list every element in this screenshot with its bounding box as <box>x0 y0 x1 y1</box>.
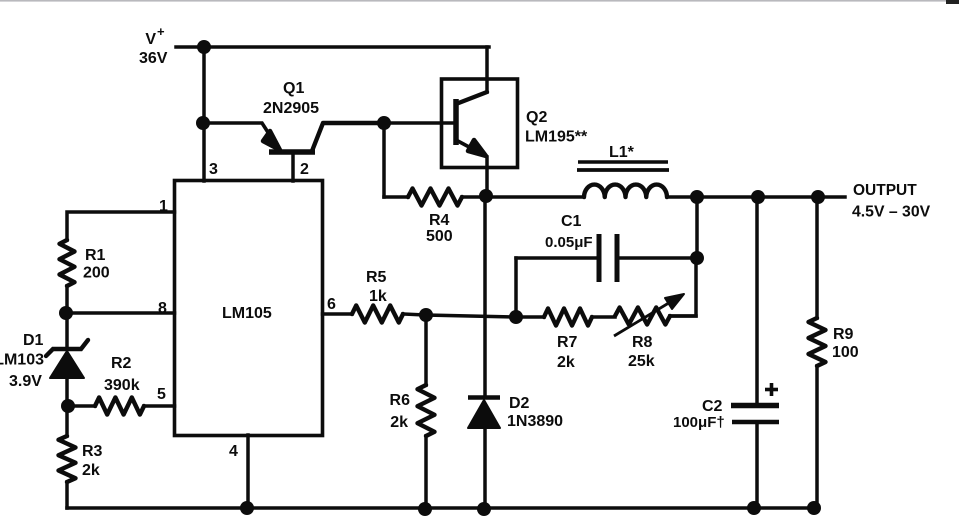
wire output node down to C1 <box>695 197 699 258</box>
svg-text:2k: 2k <box>82 462 100 479</box>
svg-text:D1: D1 <box>23 332 44 349</box>
svg-text:R6: R6 <box>390 392 411 409</box>
inductor L1 <box>577 144 669 197</box>
wire V+ down to Q1 emitter node <box>202 47 206 122</box>
junction R9 / rail <box>807 501 821 515</box>
resistor R6 2k <box>390 315 435 509</box>
junction Q1 emitter node <box>196 116 210 130</box>
junction R5 / R6 node <box>419 308 433 322</box>
resistor R7 2k <box>509 309 615 372</box>
junction Q2 emitter / R4 / L1 / D2 node <box>479 189 493 203</box>
zener diode D1 LM103 3.9V <box>0 313 88 406</box>
svg-text:LM195**: LM195** <box>525 129 588 146</box>
svg-text:1N3890: 1N3890 <box>507 413 563 430</box>
svg-text:4.5V – 30V: 4.5V – 30V <box>852 204 931 221</box>
wire C1 branch right vertical down to R8 <box>670 258 696 316</box>
node OUTPUT 4.5V-30V <box>852 182 931 221</box>
resistor R4 500 <box>384 189 486 246</box>
svg-text:R4: R4 <box>429 212 450 229</box>
svg-text:4: 4 <box>229 443 238 460</box>
svg-text:390k: 390k <box>104 377 140 394</box>
capacitor C1 0.05uF <box>516 213 697 282</box>
svg-text:Q2: Q2 <box>526 109 547 126</box>
variable resistor R8 25k <box>614 294 696 370</box>
svg-text:100μF†: 100μF† <box>673 414 725 431</box>
junction C2 / rail <box>747 501 761 515</box>
svg-text:R9: R9 <box>833 326 854 343</box>
svg-text:R2: R2 <box>111 355 132 372</box>
svg-text:2k: 2k <box>390 414 408 431</box>
junction V+ rail <box>197 40 211 54</box>
junction pin 4 / rail <box>240 501 254 515</box>
resistor R2 390k <box>68 355 175 415</box>
resistor R5 1k <box>352 269 426 323</box>
svg-text:100: 100 <box>832 344 859 361</box>
junction C1 right lead <box>690 251 704 265</box>
transistor Q2 LM195 <box>442 79 589 196</box>
wire node to L1 <box>486 195 584 199</box>
svg-text:R1: R1 <box>85 247 106 264</box>
wire R5 junction to R7 junction <box>426 315 516 317</box>
junction output / C1-R8 branch <box>690 190 704 204</box>
wire pin 8 <box>66 311 175 315</box>
junction output / C2 branch <box>751 190 765 204</box>
svg-text:200: 200 <box>83 265 110 282</box>
junction R6 / rail <box>418 502 432 516</box>
svg-text:+: + <box>157 24 165 39</box>
diode D2 1N3890 <box>468 395 563 509</box>
svg-text:R7: R7 <box>557 334 578 351</box>
wire R9 branch <box>815 197 819 318</box>
resistor R1 200 <box>60 240 110 313</box>
junction R1 / D1 / pin 8 node <box>59 306 73 320</box>
svg-text:3: 3 <box>209 161 218 178</box>
svg-text:Q1: Q1 <box>283 80 304 97</box>
svg-text:R3: R3 <box>82 443 103 460</box>
svg-text:6: 6 <box>327 296 336 313</box>
wire Q2 base lead <box>384 121 456 125</box>
junction R7 / C1 left node <box>509 310 523 324</box>
wire pin 4 lead <box>246 435 250 508</box>
junction Q1 collector / Q2 base / R4 node <box>377 116 391 130</box>
svg-text:C2: C2 <box>702 398 723 415</box>
svg-text:3.9V: 3.9V <box>9 373 42 390</box>
svg-text:2: 2 <box>300 161 309 178</box>
transistor Q1 2N2905 <box>203 80 384 181</box>
svg-text:36V: 36V <box>139 50 168 67</box>
svg-text:C1: C1 <box>561 213 582 230</box>
svg-text:L1*: L1* <box>609 144 635 161</box>
svg-text:V: V <box>145 31 156 48</box>
svg-text:LM103: LM103 <box>0 352 44 369</box>
svg-text:D2: D2 <box>509 395 530 412</box>
resistor R3 2k <box>59 406 103 508</box>
wire pin 3 lead <box>202 123 206 181</box>
svg-text:R5: R5 <box>366 269 387 286</box>
svg-text:25k: 25k <box>628 353 655 370</box>
svg-text:2k: 2k <box>557 354 575 371</box>
svg-text:2N2905: 2N2905 <box>263 100 319 117</box>
wire pin 1 to R1 <box>67 212 175 240</box>
svg-text:LM105: LM105 <box>222 305 272 322</box>
svg-text:5: 5 <box>157 386 166 403</box>
svg-text:OUTPUT: OUTPUT <box>853 182 917 199</box>
wire R4 branch down <box>382 123 386 197</box>
wire C1 left lead down to R7 junction <box>514 258 518 317</box>
svg-text:0.05μF: 0.05μF <box>545 234 593 251</box>
svg-text:1k: 1k <box>369 288 387 305</box>
wire bottom ground rail <box>67 506 818 510</box>
op-amp regulator U1 LM105 <box>175 181 323 436</box>
resistor R9 100 <box>809 318 859 508</box>
wire top rail V+ to Q2 collector <box>204 47 489 92</box>
junction D2 / rail <box>477 502 491 516</box>
wire L1 to output <box>667 195 845 199</box>
wire pin 6 <box>323 312 353 316</box>
junction D1 / R2 / R3 node <box>61 399 75 413</box>
wire C2 branch <box>755 197 759 403</box>
wire D2 branch from R4 node <box>483 196 487 396</box>
capacitor C2 100uF <box>673 383 779 508</box>
svg-text:R8: R8 <box>632 334 653 351</box>
node V+ 36V <box>139 24 204 67</box>
svg-text:500: 500 <box>426 228 453 245</box>
junction output / R9 branch <box>811 190 825 204</box>
